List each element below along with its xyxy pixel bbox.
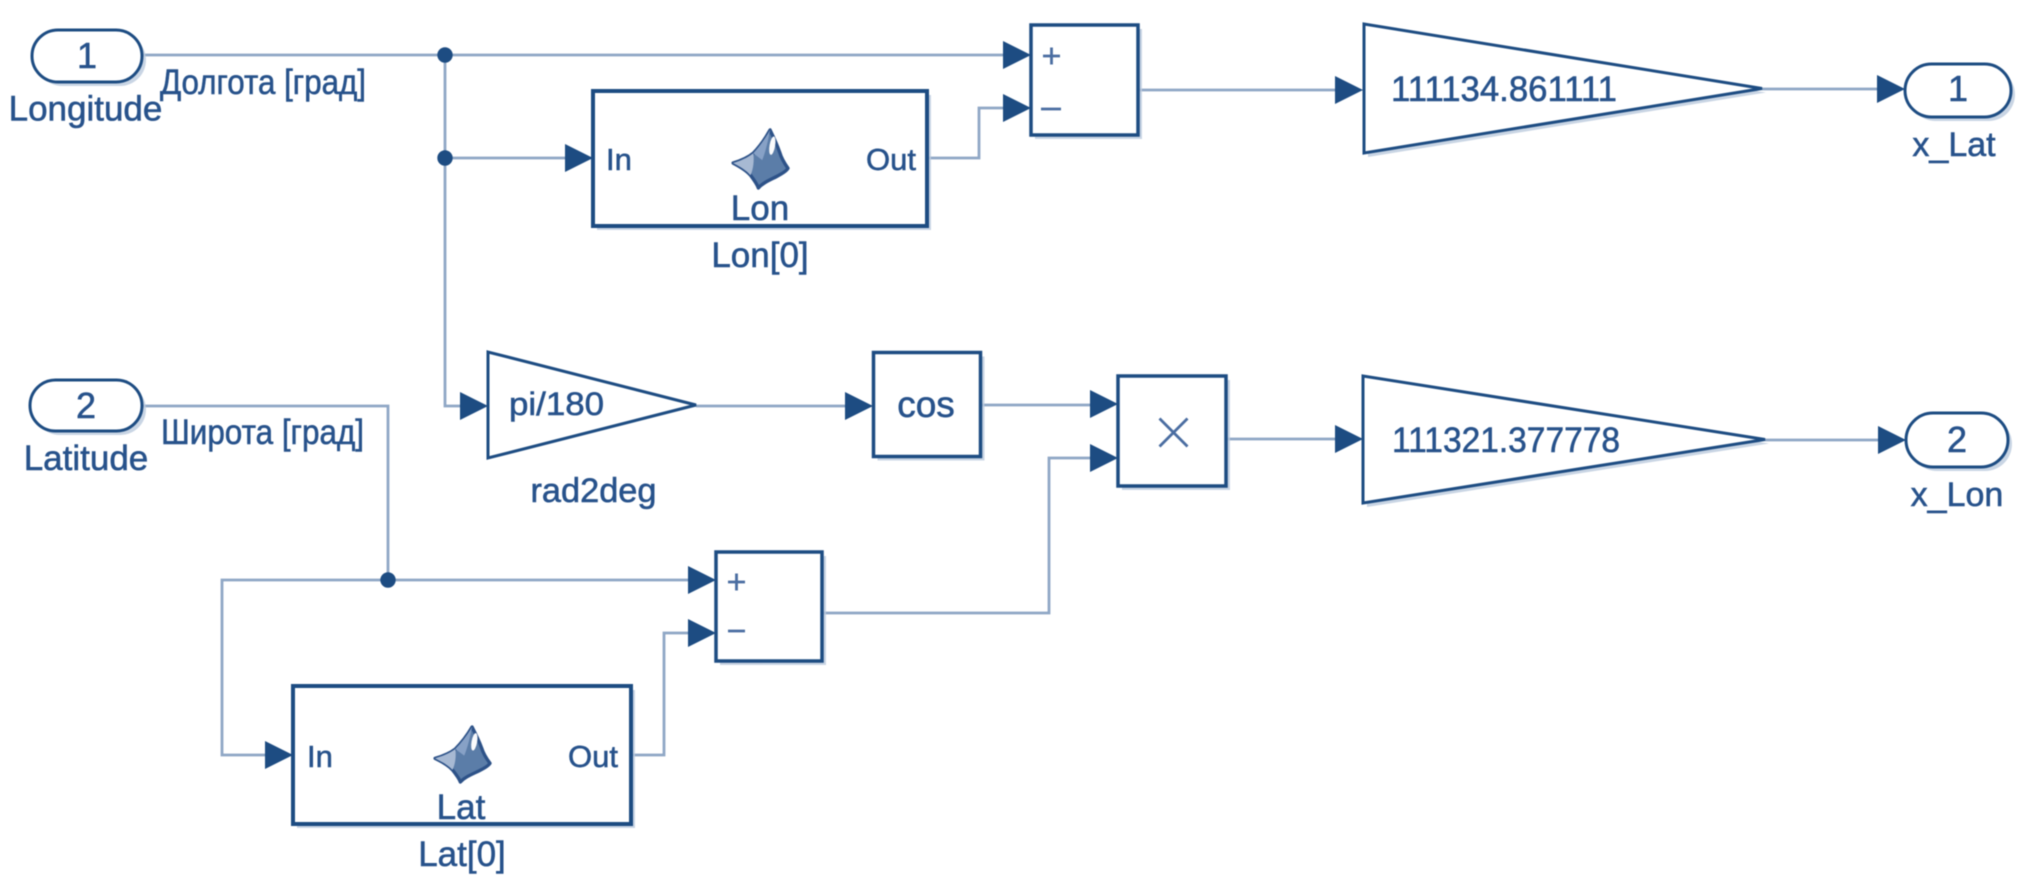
svg-text:Latitude: Latitude: [24, 439, 149, 478]
svg-text:Longitude: Longitude: [9, 90, 163, 129]
svg-text:Out: Out: [866, 142, 916, 177]
svg-text:In: In: [307, 739, 333, 774]
svg-text:Lon: Lon: [731, 189, 789, 228]
svg-text:rad2deg: rad2deg: [531, 472, 657, 510]
svg-text:Lat[0]: Lat[0]: [418, 835, 506, 874]
svg-text:Out: Out: [568, 739, 618, 774]
svg-text:Lon[0]: Lon[0]: [711, 236, 808, 275]
svg-text:111134.861111: 111134.861111: [1391, 70, 1617, 109]
svg-text:2: 2: [1947, 419, 1967, 460]
svg-text:x_Lon: x_Lon: [1911, 476, 2004, 514]
svg-text:2: 2: [76, 385, 96, 426]
svg-text:Lat: Lat: [437, 788, 486, 827]
svg-text:Долгота [град]: Долгота [град]: [160, 63, 366, 102]
svg-text:In: In: [606, 142, 632, 177]
svg-text:1: 1: [1948, 68, 1968, 109]
svg-text:Широта [град]: Широта [град]: [161, 413, 364, 452]
svg-text:1: 1: [77, 35, 97, 76]
svg-text:x_Lat: x_Lat: [1912, 126, 1996, 164]
svg-text:cos: cos: [897, 384, 955, 425]
svg-text:111321.377778: 111321.377778: [1392, 421, 1620, 460]
svg-text:pi/180: pi/180: [509, 386, 604, 422]
